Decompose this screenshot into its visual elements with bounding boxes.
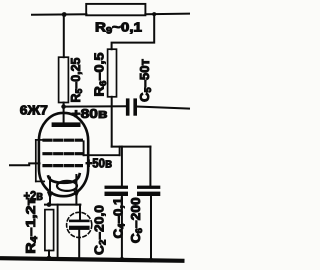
svg-text:R5–0,25: R5–0,25 bbox=[68, 58, 84, 103]
wire top supply rail left segment bbox=[32, 13, 86, 15]
capacitor C6 top plate bbox=[137, 186, 160, 189]
wire C4 top lead from screen node bbox=[121, 147, 123, 186]
wire screen node jog up bbox=[119, 147, 121, 156]
wire R5 top lead bbox=[63, 15, 65, 58]
svg-text:C2–20,0: C2–20,0 bbox=[92, 205, 108, 255]
capacitor C5 left plate bbox=[126, 98, 130, 115]
ground bus bbox=[2, 258, 182, 261]
wire elbow from rail down to R6 top bbox=[112, 14, 155, 49]
wire C6 bottom lead bbox=[150, 196, 152, 260]
wire output after C5 bbox=[137, 107, 189, 109]
node C4/bus junction dot bbox=[120, 257, 125, 262]
node C6/bus junction dot bbox=[149, 258, 154, 263]
grid g1 dashed row bbox=[44, 164, 81, 167]
svg-text:+80в: +80в bbox=[72, 106, 108, 121]
grid g3 dashed row bbox=[44, 139, 81, 142]
wire plate node to C5 bbox=[64, 105, 127, 107]
svg-text:R4–1,2т: R4–1,2т bbox=[23, 198, 39, 254]
wire cathode rail bbox=[45, 204, 80, 206]
grid g2 dashed row bbox=[44, 152, 81, 155]
capacitor C6 bottom plate bbox=[137, 192, 160, 196]
resistor R4 body bbox=[45, 210, 54, 251]
svg-text:C6–200: C6–200 bbox=[128, 197, 144, 243]
wire C6 top lead from screen node bbox=[149, 147, 151, 186]
wire g3 to cathode loop top bbox=[36, 139, 45, 141]
svg-text:+50в: +50в bbox=[86, 156, 113, 170]
wire screen node horizontal bbox=[112, 146, 151, 148]
wire parallel branch left of C2 bbox=[57, 205, 59, 258]
wire g3 loop left vertical bbox=[35, 140, 37, 182]
wire C2 bottom lead bbox=[78, 230, 80, 258]
capacitor C5 right plate bbox=[133, 98, 137, 115]
svg-text:R6–0,5: R6–0,5 bbox=[92, 53, 108, 97]
capacitor C2 electrolytic dashed circle bbox=[67, 212, 92, 237]
node junction rail/R6 branch bbox=[152, 12, 156, 16]
capacitor C2 bottom plate bbox=[69, 226, 90, 230]
capacitor C4 bottom plate bbox=[105, 192, 129, 196]
resistor R6 body bbox=[108, 49, 117, 97]
resistor R9 body bbox=[86, 4, 145, 15]
wire R5 bottom lead to plate node bbox=[63, 103, 65, 124]
wire C2 top lead bbox=[79, 205, 81, 220]
arrowhead right cathode lead bbox=[73, 190, 79, 198]
svg-text:R9~0,1: R9~0,1 bbox=[95, 20, 142, 35]
node R4/bus junction dot bbox=[47, 256, 52, 261]
anode plate bar bbox=[52, 122, 81, 127]
svg-text:C5–50т: C5–50т bbox=[137, 59, 153, 102]
resistor R5 body bbox=[59, 57, 69, 102]
arrowhead left cathode lead bbox=[47, 192, 53, 200]
wire g3 loop bottom bbox=[36, 180, 44, 182]
capacitor C2 top plate bbox=[69, 220, 90, 223]
svg-text:C4–0,1: C4–0,1 bbox=[111, 198, 127, 239]
wire top supply rail right segment bbox=[145, 13, 189, 16]
svg-text:6Ж7: 6Ж7 bbox=[20, 103, 48, 118]
wire screen grid inner lead bbox=[83, 141, 85, 155]
node junction dot rail/R5 bbox=[62, 12, 67, 17]
capacitor C4 top plate bbox=[105, 186, 129, 189]
tube 6Zh7 envelope bbox=[39, 113, 88, 196]
wire screen grid to node bbox=[84, 154, 120, 156]
node plate junction dot bbox=[61, 104, 66, 109]
wire C4 bottom lead bbox=[121, 196, 123, 260]
heater ellipse bbox=[57, 181, 77, 191]
wire R4 bottom lead bbox=[48, 251, 50, 259]
cathode arc bbox=[48, 174, 79, 183]
wire R6 lead crossing plate wire down to screen node bbox=[111, 97, 113, 147]
wire input lead bbox=[10, 163, 40, 165]
wire cathode right lead bbox=[75, 175, 77, 205]
wire cathode left lead bbox=[49, 178, 51, 205]
node cathode junction dot bbox=[47, 202, 52, 207]
